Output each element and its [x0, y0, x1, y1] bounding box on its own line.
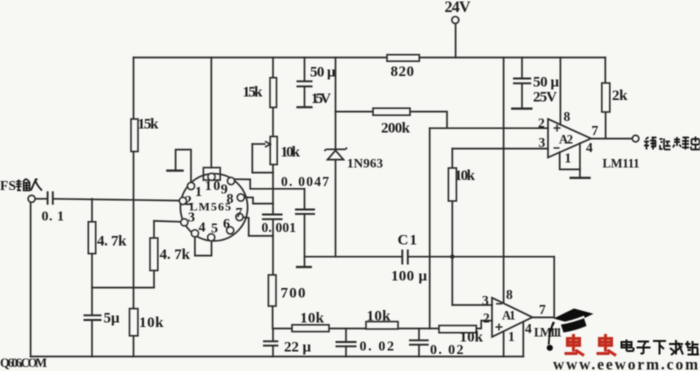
- wire: 24V drop: [455, 24, 457, 58]
- capacitor 0.0047: [295, 210, 315, 214]
- capacitor 0.02 second: [409, 340, 429, 344]
- label 10k rheostat: [281, 145, 301, 161]
- op-amp A1 LM111: [492, 298, 532, 337]
- label demodulated output (CJK): [644, 137, 700, 150]
- label LM565: [190, 200, 232, 214]
- capacitor 50u 25V: [513, 79, 531, 84]
- capacitor 5u: [84, 315, 102, 320]
- label 0.1: [42, 210, 65, 225]
- A1 pin numbers and labels: [482, 287, 562, 344]
- label LM111 lower: [534, 326, 562, 340]
- node: junction of C1 wire and 10k rail: [450, 255, 454, 259]
- pin 3: [181, 219, 188, 226]
- label 50u 15V: [310, 64, 336, 107]
- watermark graduation cap logo: [547, 309, 594, 351]
- svg-text:5 μ: 5 μ: [104, 311, 120, 327]
- resistor 4.7k input: [88, 222, 95, 254]
- wire: 0.02 C8 leads: [345, 329, 347, 357]
- label 0.02 second: [430, 343, 464, 358]
- svg-text:22 μ: 22 μ: [284, 340, 311, 356]
- svg-text:8: 8: [564, 109, 571, 124]
- wire: FS input drop to ground bus: [30, 202, 32, 357]
- ground bar 0.0047: [297, 266, 311, 268]
- label 700: [281, 286, 306, 302]
- label 22u: [284, 340, 311, 356]
- svg-text:0. 001: 0. 001: [262, 220, 297, 235]
- svg-text:5: 5: [211, 222, 218, 237]
- watermark red bug characters: [565, 334, 617, 356]
- label 2k: [612, 88, 628, 104]
- ground bar 50u25V: [512, 107, 531, 109]
- pin 5: [208, 234, 215, 241]
- wire: A2 pin2 input: [430, 127, 548, 129]
- svg-text:4. 7k: 4. 7k: [97, 234, 127, 250]
- resistor 4.7k pin3: [150, 238, 158, 271]
- label 0.02 first: [360, 340, 395, 355]
- pin 2: [179, 197, 186, 204]
- svg-text:25V: 25V: [533, 90, 557, 106]
- svg-text:0. 0047: 0. 0047: [281, 174, 329, 189]
- wire: 4.7k R4 branch: [92, 199, 154, 357]
- wire: pin8 of LM565: [245, 197, 273, 203]
- wire: 50u/15V cap leads: [304, 58, 306, 107]
- wire: 10k R9 leads: [451, 149, 453, 305]
- wire: pin4-pin5 loop: [195, 237, 212, 255]
- wire: 0.02 C9 leads: [418, 329, 420, 357]
- svg-text:3: 3: [482, 293, 489, 308]
- svg-text:1: 1: [508, 329, 515, 344]
- svg-text:15V: 15V: [311, 91, 331, 107]
- svg-text:4. 7k: 4. 7k: [160, 247, 191, 263]
- svg-text:LM565: LM565: [190, 200, 232, 214]
- A2 pin numbers and labels: [538, 109, 640, 171]
- capacitor 0.1 input: [48, 191, 53, 204]
- pin 4: [191, 230, 198, 237]
- label LM111 upper: [603, 157, 640, 171]
- svg-text:24V: 24V: [445, 0, 471, 16]
- label 0.001: [262, 220, 297, 235]
- label 100u: [391, 269, 427, 285]
- IC LM565 can package: [180, 174, 247, 241]
- svg-text:820: 820: [391, 64, 415, 80]
- pin 8: [237, 194, 244, 201]
- svg-text:10k: 10k: [139, 315, 164, 331]
- pin 10: [208, 173, 215, 180]
- watermark www.eeworm.com: [553, 357, 699, 371]
- svg-text:10k: 10k: [281, 145, 301, 161]
- wire: 0.0047 leads and long demod wire: [305, 189, 555, 318]
- resistor 10k left bias lower: [130, 309, 138, 336]
- wire: A2 output: [591, 138, 632, 140]
- resistor 820: [387, 55, 419, 62]
- pin10 case box: [203, 168, 220, 181]
- label 10k bias: [139, 315, 164, 331]
- svg-text:50 μ: 50 μ: [310, 64, 336, 80]
- capacitor 22u: [263, 341, 278, 345]
- pin 6: [227, 227, 234, 234]
- svg-text:1: 1: [195, 185, 202, 200]
- wire: rheostat wiper loop: [252, 144, 273, 173]
- label C1: [398, 233, 418, 249]
- LM565 pin numbers: [185, 179, 243, 237]
- label 24V: [445, 0, 471, 16]
- wire: bottom ground bus: [31, 356, 524, 358]
- pin 7: [236, 213, 243, 220]
- wire: A1 pin4 ground: [522, 322, 524, 357]
- wire: A2 pin3 input: [452, 148, 548, 150]
- wire: A1 pin1 ground: [503, 331, 505, 356]
- svg-text:7: 7: [236, 206, 243, 221]
- terminal 24V: [452, 17, 459, 24]
- svg-text:A1: A1: [502, 309, 516, 323]
- wire: pin10 supply drop: [210, 58, 212, 168]
- resistor 200k: [373, 108, 410, 115]
- resistor 15k timing upper: [270, 78, 277, 108]
- terminal FS input: [28, 195, 35, 202]
- svg-text:2: 2: [483, 311, 490, 326]
- svg-text:7: 7: [592, 123, 599, 138]
- svg-text:10k: 10k: [455, 168, 476, 184]
- pin 1: [187, 182, 194, 189]
- wire: RC ladder: [273, 321, 492, 329]
- wire: A2 pin8 rail: [559, 58, 561, 125]
- svg-text:10k: 10k: [460, 330, 484, 346]
- wire: 200k to A2 pin2: [336, 112, 448, 129]
- svg-text:15k: 15k: [138, 117, 160, 133]
- label 10k ladder2: [367, 309, 392, 325]
- wire: left bias rail: [133, 58, 135, 357]
- svg-text:2k: 2k: [612, 88, 628, 104]
- wire: pin3 of LM565: [154, 220, 181, 223]
- svg-text:C1: C1: [398, 233, 418, 249]
- svg-text:1: 1: [565, 151, 572, 166]
- svg-text:www.eeworm.com: www.eeworm.com: [553, 357, 699, 371]
- label 10k at A2: [455, 168, 476, 184]
- svg-text:4: 4: [199, 221, 206, 236]
- wire: 22u leads: [272, 329, 274, 357]
- wire: pin7 of LM565: [243, 217, 273, 236]
- wire: zener rail: [335, 58, 337, 257]
- wire: top supply bus: [134, 58, 606, 84]
- resistor 2k: [602, 83, 610, 112]
- svg-text:4: 4: [525, 321, 532, 336]
- resistor 10k rheostat: [270, 137, 277, 165]
- label 4.7k input: [97, 234, 127, 250]
- label 15k timing: [243, 84, 264, 100]
- ground bar A2: [571, 177, 590, 179]
- resistor 15k left bias upper: [131, 119, 138, 152]
- wire: A2 pin2 to RC ladder vertical: [429, 128, 431, 328]
- svg-text:7: 7: [539, 302, 546, 317]
- label 5u: [104, 311, 120, 327]
- svg-text:200k: 200k: [381, 121, 411, 137]
- svg-text:2: 2: [538, 116, 545, 131]
- capacitor 50u 15V: [297, 81, 313, 86]
- svg-text:50 μ: 50 μ: [533, 75, 559, 91]
- svg-text:10: 10: [205, 179, 221, 194]
- capacitor 0.02 first: [336, 342, 357, 346]
- wire: pin9 of LM565 to 0.0047: [234, 179, 304, 189]
- resistor 700: [268, 275, 276, 306]
- pin 9: [227, 177, 234, 184]
- zener diode 1N963: [324, 148, 347, 160]
- watermark site name (CJK): [622, 340, 700, 356]
- wire: 50u/25V cap leads: [521, 58, 523, 108]
- resistor 10k ladder 2: [366, 322, 398, 329]
- op-amp A2 LM111: [548, 119, 591, 158]
- svg-text:A2: A2: [559, 133, 573, 147]
- wire: 2k bottom lead: [605, 112, 607, 139]
- component bodies: [88, 55, 610, 336]
- wire: pin1 ground stub: [176, 150, 191, 183]
- watermark Q606.COM: [0, 356, 47, 370]
- svg-text:3: 3: [539, 135, 546, 150]
- label 15k upper-left: [138, 117, 160, 133]
- resistor 10k ladder 3: [439, 326, 476, 333]
- label 200k: [381, 121, 411, 137]
- label 1N963: [347, 156, 384, 171]
- svg-text:Q606.COM: Q606.COM: [0, 356, 47, 370]
- resistor 10k ladder 1: [292, 325, 329, 332]
- label FS input: [0, 178, 42, 193]
- wire: A1 pin8 rail: [503, 58, 505, 304]
- svg-text:4: 4: [586, 140, 593, 155]
- rheostat arrow head: [265, 141, 270, 147]
- svg-text:100 μ: 100 μ: [391, 269, 427, 285]
- svg-text:6: 6: [223, 217, 230, 232]
- svg-text:8: 8: [506, 287, 513, 302]
- label 10k ladder1: [300, 311, 325, 327]
- terminal output: [632, 135, 639, 142]
- svg-text:700: 700: [281, 286, 306, 302]
- svg-text:LM111: LM111: [603, 157, 640, 171]
- wire: VCO timing rail x273: [272, 58, 274, 329]
- svg-text:0. 02: 0. 02: [360, 340, 395, 355]
- label 820: [391, 64, 415, 80]
- wire: input coupling: [35, 199, 179, 201]
- capacitor C1 100u: [402, 250, 408, 265]
- label 4.7k pin3: [160, 247, 191, 263]
- resistor 10k at A2 pin3: [448, 168, 456, 201]
- svg-text:10k: 10k: [367, 309, 392, 325]
- svg-text:LM111: LM111: [534, 326, 562, 340]
- svg-text:0. 1: 0. 1: [42, 210, 65, 225]
- label 0.0047: [281, 174, 329, 189]
- svg-text:10k: 10k: [300, 311, 325, 327]
- ground bar 50u15V: [298, 106, 312, 108]
- wire: A2 ground loop pins 1,4: [560, 143, 580, 177]
- label 50u 25V: [533, 75, 559, 106]
- ground bar pin1: [167, 170, 182, 172]
- svg-text:1N963: 1N963: [347, 156, 384, 171]
- svg-text:FS: FS: [0, 178, 16, 193]
- capacitor 0.001: [262, 215, 283, 220]
- wire: A1 pin3 input: [452, 304, 492, 306]
- label 10k ladder3: [460, 330, 484, 346]
- svg-text:15k: 15k: [243, 84, 264, 100]
